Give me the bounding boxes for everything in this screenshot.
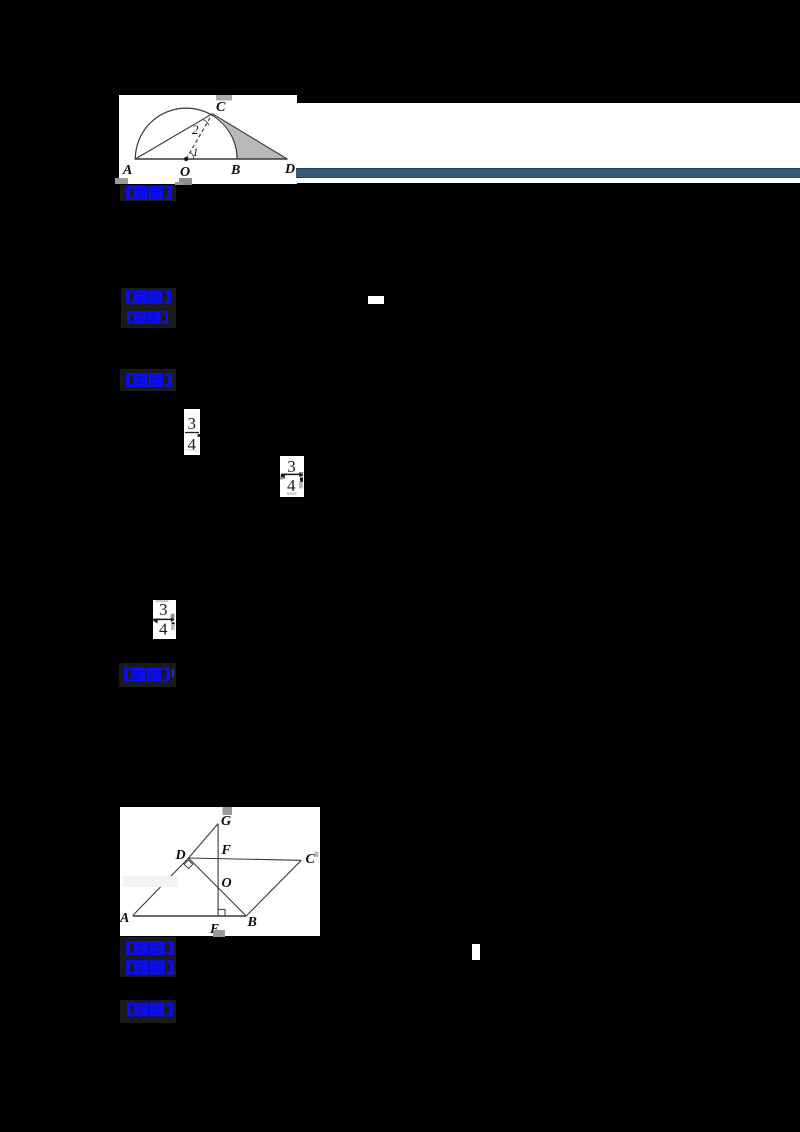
label blue 4 [120, 369, 176, 392]
artifact smudge below figure1 bottom left [115, 178, 128, 184]
label blue 5 [119, 663, 176, 687]
svg-text:O: O [222, 876, 232, 891]
svg-text:D: D [175, 848, 186, 863]
label blue 6+7 [120, 937, 176, 977]
svg-text:G: G [221, 814, 231, 829]
angle 2 arc near C [203, 120, 210, 126]
wire: vertical G E [217, 823, 219, 915]
figure 1: semicircle diagram image (white background) [119, 95, 297, 184]
svg-text:4: 4 [188, 435, 197, 454]
artifact smudge right of C [315, 851, 319, 857]
artifact smudge below figure1 near label1 [175, 182, 184, 185]
white vertical bar mark [472, 944, 480, 960]
wire: side B C [246, 860, 301, 916]
artifact smudge above G [223, 807, 233, 815]
svg-text:F: F [221, 843, 232, 858]
wire: diagonal D B [189, 858, 247, 916]
wire: segment C D [212, 114, 287, 159]
svg-text:A: A [120, 911, 129, 926]
fraction 3/4 image 2 with comma [280, 456, 304, 497]
svg-text:B: B [247, 915, 257, 930]
svg-text:4: 4 [287, 476, 296, 495]
label blue 8 [120, 1000, 176, 1023]
right angle mark at D [184, 860, 193, 869]
svg-text:1: 1 [193, 145, 199, 159]
svg-text:B: B [230, 163, 240, 178]
wire: side A B [133, 915, 246, 917]
faint smudge left middle [123, 876, 178, 887]
fraction 3/4 image 3 with comma [153, 600, 177, 639]
artifact smudge below E [213, 930, 225, 937]
svg-text:4: 4 [159, 619, 168, 638]
wire: baseline A O B D [135, 158, 288, 160]
svg-text:3: 3 [188, 414, 197, 433]
fraction 3/4 image 1 [184, 409, 200, 455]
angle 1 arc at O [190, 152, 194, 159]
semicircle on diameter AB, center O [135, 108, 237, 159]
wire: side D C [189, 858, 302, 860]
wire: dashed radius O C [186, 114, 212, 159]
label blue 2+3 [121, 288, 177, 328]
svg-text:3: 3 [159, 600, 168, 619]
svg-text:C: C [306, 852, 316, 867]
svg-text:C: C [216, 100, 226, 115]
shaded region between arc CB, segment BD and chord DC [212, 114, 287, 159]
label blue 1 [120, 185, 176, 202]
svg-text:A: A [122, 163, 132, 178]
wire: segment D G [189, 823, 219, 857]
artifact smudge below O label [179, 178, 192, 185]
wire: chord A C [135, 114, 212, 159]
white dash (minus image) [368, 296, 384, 304]
wire: side A D [133, 858, 189, 916]
node O center dot [184, 157, 188, 161]
svg-text:3: 3 [287, 457, 296, 476]
artifact smudge above C [216, 95, 232, 101]
svg-text:2: 2 [192, 122, 199, 137]
right angle mark at E [218, 909, 225, 916]
figure 2: parallelogram diagram image (white background) [120, 807, 320, 937]
white strip to the right of figure 1 [297, 103, 800, 183]
svg-text:D: D [284, 162, 295, 177]
slate blue bar [296, 168, 800, 178]
